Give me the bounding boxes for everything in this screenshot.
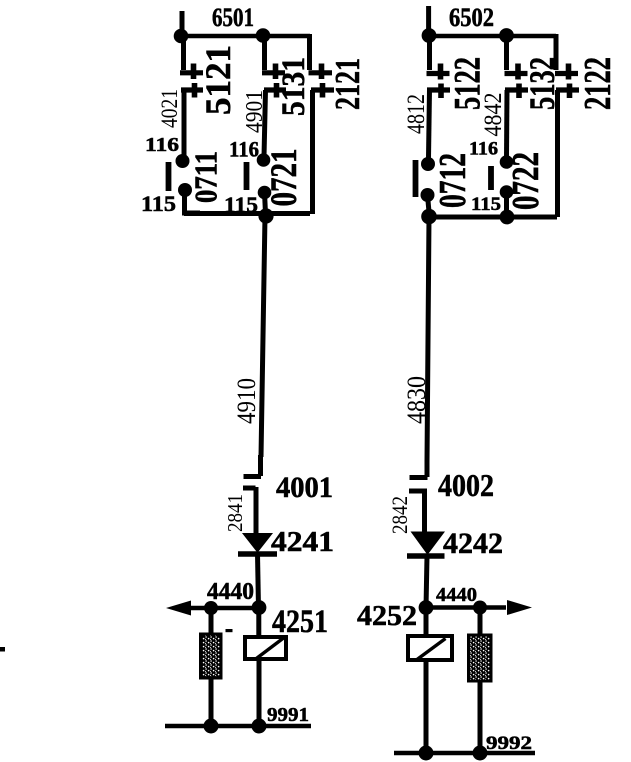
svg-text:6502: 6502 <box>449 3 494 32</box>
svg-text:115: 115 <box>141 191 176 216</box>
resistor (left, hatched) <box>201 634 222 678</box>
wire: top feed stub right <box>426 6 431 35</box>
label 0722 <box>505 152 547 210</box>
node: rail dot (relay) right <box>419 746 434 761</box>
svg-text:5121: 5121 <box>198 45 238 115</box>
wire: relay bottom lead <box>257 659 262 726</box>
svg-text:9992: 9992 <box>486 733 532 754</box>
arrow (net 4440 left) <box>166 601 191 616</box>
label 4830 <box>402 376 431 424</box>
node: junction dot bus / branch 5121 <box>174 29 189 44</box>
svg-text:116: 116 <box>145 134 179 156</box>
label 2122 <box>577 57 619 110</box>
wire: tap line with arrow (net 4440 left) <box>186 606 259 611</box>
label 115 (branch 0721) <box>224 192 258 217</box>
label 2121 <box>328 58 367 110</box>
node: relay branch dot right <box>419 600 434 615</box>
node: resistor tap dot <box>204 601 218 615</box>
svg-text:4440: 4440 <box>207 579 254 605</box>
wire: branch drop to contact 5131 <box>262 36 267 70</box>
svg-text:0722: 0722 <box>505 152 547 210</box>
svg-text:4241: 4241 <box>271 527 334 558</box>
svg-text:115: 115 <box>471 194 501 215</box>
wire: contact 5131 to contact 0721 <box>264 90 266 157</box>
contact 2121 <box>309 64 335 98</box>
label 5121 <box>198 45 238 115</box>
wire: bottom rail 9991 <box>165 724 311 729</box>
wire: contact 5132 to contact 0722 <box>504 90 510 158</box>
wire: right side of block / branch 2121 <box>307 34 312 70</box>
wire: resistor bottom to bus <box>209 678 214 726</box>
label 4001 <box>276 471 333 504</box>
wire: tap line with arrow (net 4440 right) <box>426 605 506 610</box>
wire: long drop net 4830 <box>410 217 430 478</box>
relay coil 4251 <box>245 637 286 660</box>
node: resistor tap dot right <box>473 601 487 615</box>
wire: contact 2121 down to bottom bus <box>310 90 315 214</box>
wire: right side of block / branch 2122 <box>554 34 559 70</box>
wire: resistor bottom to bus right <box>478 681 483 753</box>
label 5131 <box>276 57 312 116</box>
wire: relay top lead <box>256 608 261 638</box>
svg-text:4910: 4910 <box>232 378 261 424</box>
label 4812 <box>403 94 430 134</box>
switch 4001 lower jaw <box>243 487 256 534</box>
label 4440 (left) <box>207 579 254 605</box>
wire: top feed stub left <box>180 11 185 36</box>
contact 0711 <box>169 154 193 197</box>
wire: top bus right block <box>429 34 556 39</box>
label 4241 <box>271 527 334 558</box>
svg-text:4002: 4002 <box>438 467 494 503</box>
contact 0722 <box>491 155 513 199</box>
label 4242 <box>443 527 503 560</box>
label 116 (branch 0721) <box>229 137 259 162</box>
wire: relay top lead right <box>424 608 429 637</box>
arrow (net 4440 right) <box>507 600 532 615</box>
svg-text:116: 116 <box>469 139 498 160</box>
node: bottom bus junction (net 4910 tap) <box>258 208 273 223</box>
contact 5121 <box>180 64 203 98</box>
label 4910 <box>232 378 261 424</box>
label 4440 (right) <box>436 584 477 606</box>
resistor (right, hatched) <box>469 635 492 681</box>
wire: diode to node 4440 <box>258 554 259 608</box>
wire: contact 0722 to bus <box>504 192 509 214</box>
svg-text:4440: 4440 <box>436 584 477 606</box>
label 116 (branch 0711) <box>145 134 179 156</box>
wire: contact 2122 down to bottom bus <box>555 90 560 217</box>
wire: contact 5122 to contact 0712 <box>429 90 430 158</box>
wire: bottom bus right block <box>429 215 557 220</box>
svg-text:4251: 4251 <box>272 604 328 640</box>
label 2841 <box>223 494 247 532</box>
label 4251 <box>272 604 328 640</box>
node: relay branch dot <box>252 600 267 615</box>
label 5132 <box>522 57 562 110</box>
svg-text:4242: 4242 <box>443 527 503 560</box>
svg-text:115: 115 <box>224 192 258 217</box>
svg-text:0712: 0712 <box>432 153 474 208</box>
wire: dot to resistor top right <box>478 608 483 637</box>
label 4021 <box>157 89 182 128</box>
label 116 (branch 0722) <box>469 139 498 160</box>
label 0711 <box>188 151 224 203</box>
svg-text:6501: 6501 <box>212 3 254 32</box>
stray scan mark at left margin <box>0 647 5 652</box>
wire: top bus left block <box>181 34 310 39</box>
svg-text:4252: 4252 <box>357 600 417 632</box>
wire: long drop net 4910 <box>244 216 266 477</box>
node: junction dot bus / branch 5131 <box>256 28 271 43</box>
wire: dot to resistor top <box>209 608 214 636</box>
label 6501 <box>212 3 254 32</box>
label 4842 <box>480 93 507 137</box>
wire: diode to node 4440 right <box>426 556 427 608</box>
svg-text:4001: 4001 <box>276 471 333 504</box>
diode 4242 <box>407 532 445 556</box>
label 5122 <box>448 57 489 110</box>
diode 4241 <box>238 534 277 555</box>
label 4002 <box>438 467 494 503</box>
node: rail dot (resistor) right <box>473 746 488 761</box>
svg-text:4830: 4830 <box>402 376 431 424</box>
label 0712 <box>432 153 474 208</box>
switch 4002 lower jaw <box>409 491 427 533</box>
wire: branch drop to contact 5132 <box>504 36 509 70</box>
node: bus dot branch 0722 <box>500 210 515 225</box>
label 115 (branch 0711) <box>141 191 176 216</box>
svg-text:2842: 2842 <box>387 496 412 534</box>
contact 5122 <box>427 64 451 99</box>
stray scan mark near relay 4251 <box>226 629 233 632</box>
svg-text:2122: 2122 <box>577 57 619 110</box>
wire: contact 5121 to contact 0711 <box>182 90 187 158</box>
label 4901 <box>242 90 268 133</box>
svg-text:2841: 2841 <box>223 494 247 532</box>
label 0721 <box>264 149 305 207</box>
contact 5132 <box>505 64 529 99</box>
node: rail dot (relay) <box>252 719 267 734</box>
svg-text:2121: 2121 <box>328 58 367 110</box>
label 6502 <box>449 3 494 32</box>
svg-text:0711: 0711 <box>188 151 224 203</box>
contact 0721 <box>247 153 272 199</box>
label 4252 <box>357 600 417 632</box>
node: rail dot (resistor) <box>204 719 219 734</box>
svg-text:116: 116 <box>229 137 259 162</box>
label 9991 <box>267 704 309 726</box>
label 115 (branch 0722) <box>471 194 501 215</box>
node: bottom bus junction right (net 4830 tap) <box>421 209 437 225</box>
wire: bottom rail 9992 <box>394 751 535 756</box>
label 9992 <box>486 733 532 754</box>
contact 2122 <box>555 64 579 99</box>
wire: bottom bus left block <box>184 211 310 216</box>
wire: branch drop to contact 5122 <box>427 36 432 70</box>
svg-text:5131: 5131 <box>276 57 312 116</box>
svg-text:4812: 4812 <box>403 94 430 134</box>
contact 5131 <box>262 64 286 98</box>
contact 0712 <box>416 157 436 202</box>
svg-text:4842: 4842 <box>480 93 507 137</box>
wire: contact 0721 to bus junction <box>265 192 266 214</box>
node: junction dot bus / branch 5122 <box>422 28 437 43</box>
node: junction dot bus / branch 5132 <box>499 28 514 43</box>
wire: branch drop to contact 5121 <box>181 36 186 70</box>
wire: contact 0711 down to bottom bus corner <box>182 190 200 213</box>
wire: relay bottom lead right <box>424 660 429 753</box>
label 2842 <box>387 496 412 534</box>
svg-text:9991: 9991 <box>267 704 309 726</box>
relay coil 4252 <box>408 636 452 660</box>
wire: contact 0712 to bus junction <box>428 195 430 212</box>
svg-text:0721: 0721 <box>264 149 305 207</box>
svg-text:4021: 4021 <box>157 89 182 128</box>
